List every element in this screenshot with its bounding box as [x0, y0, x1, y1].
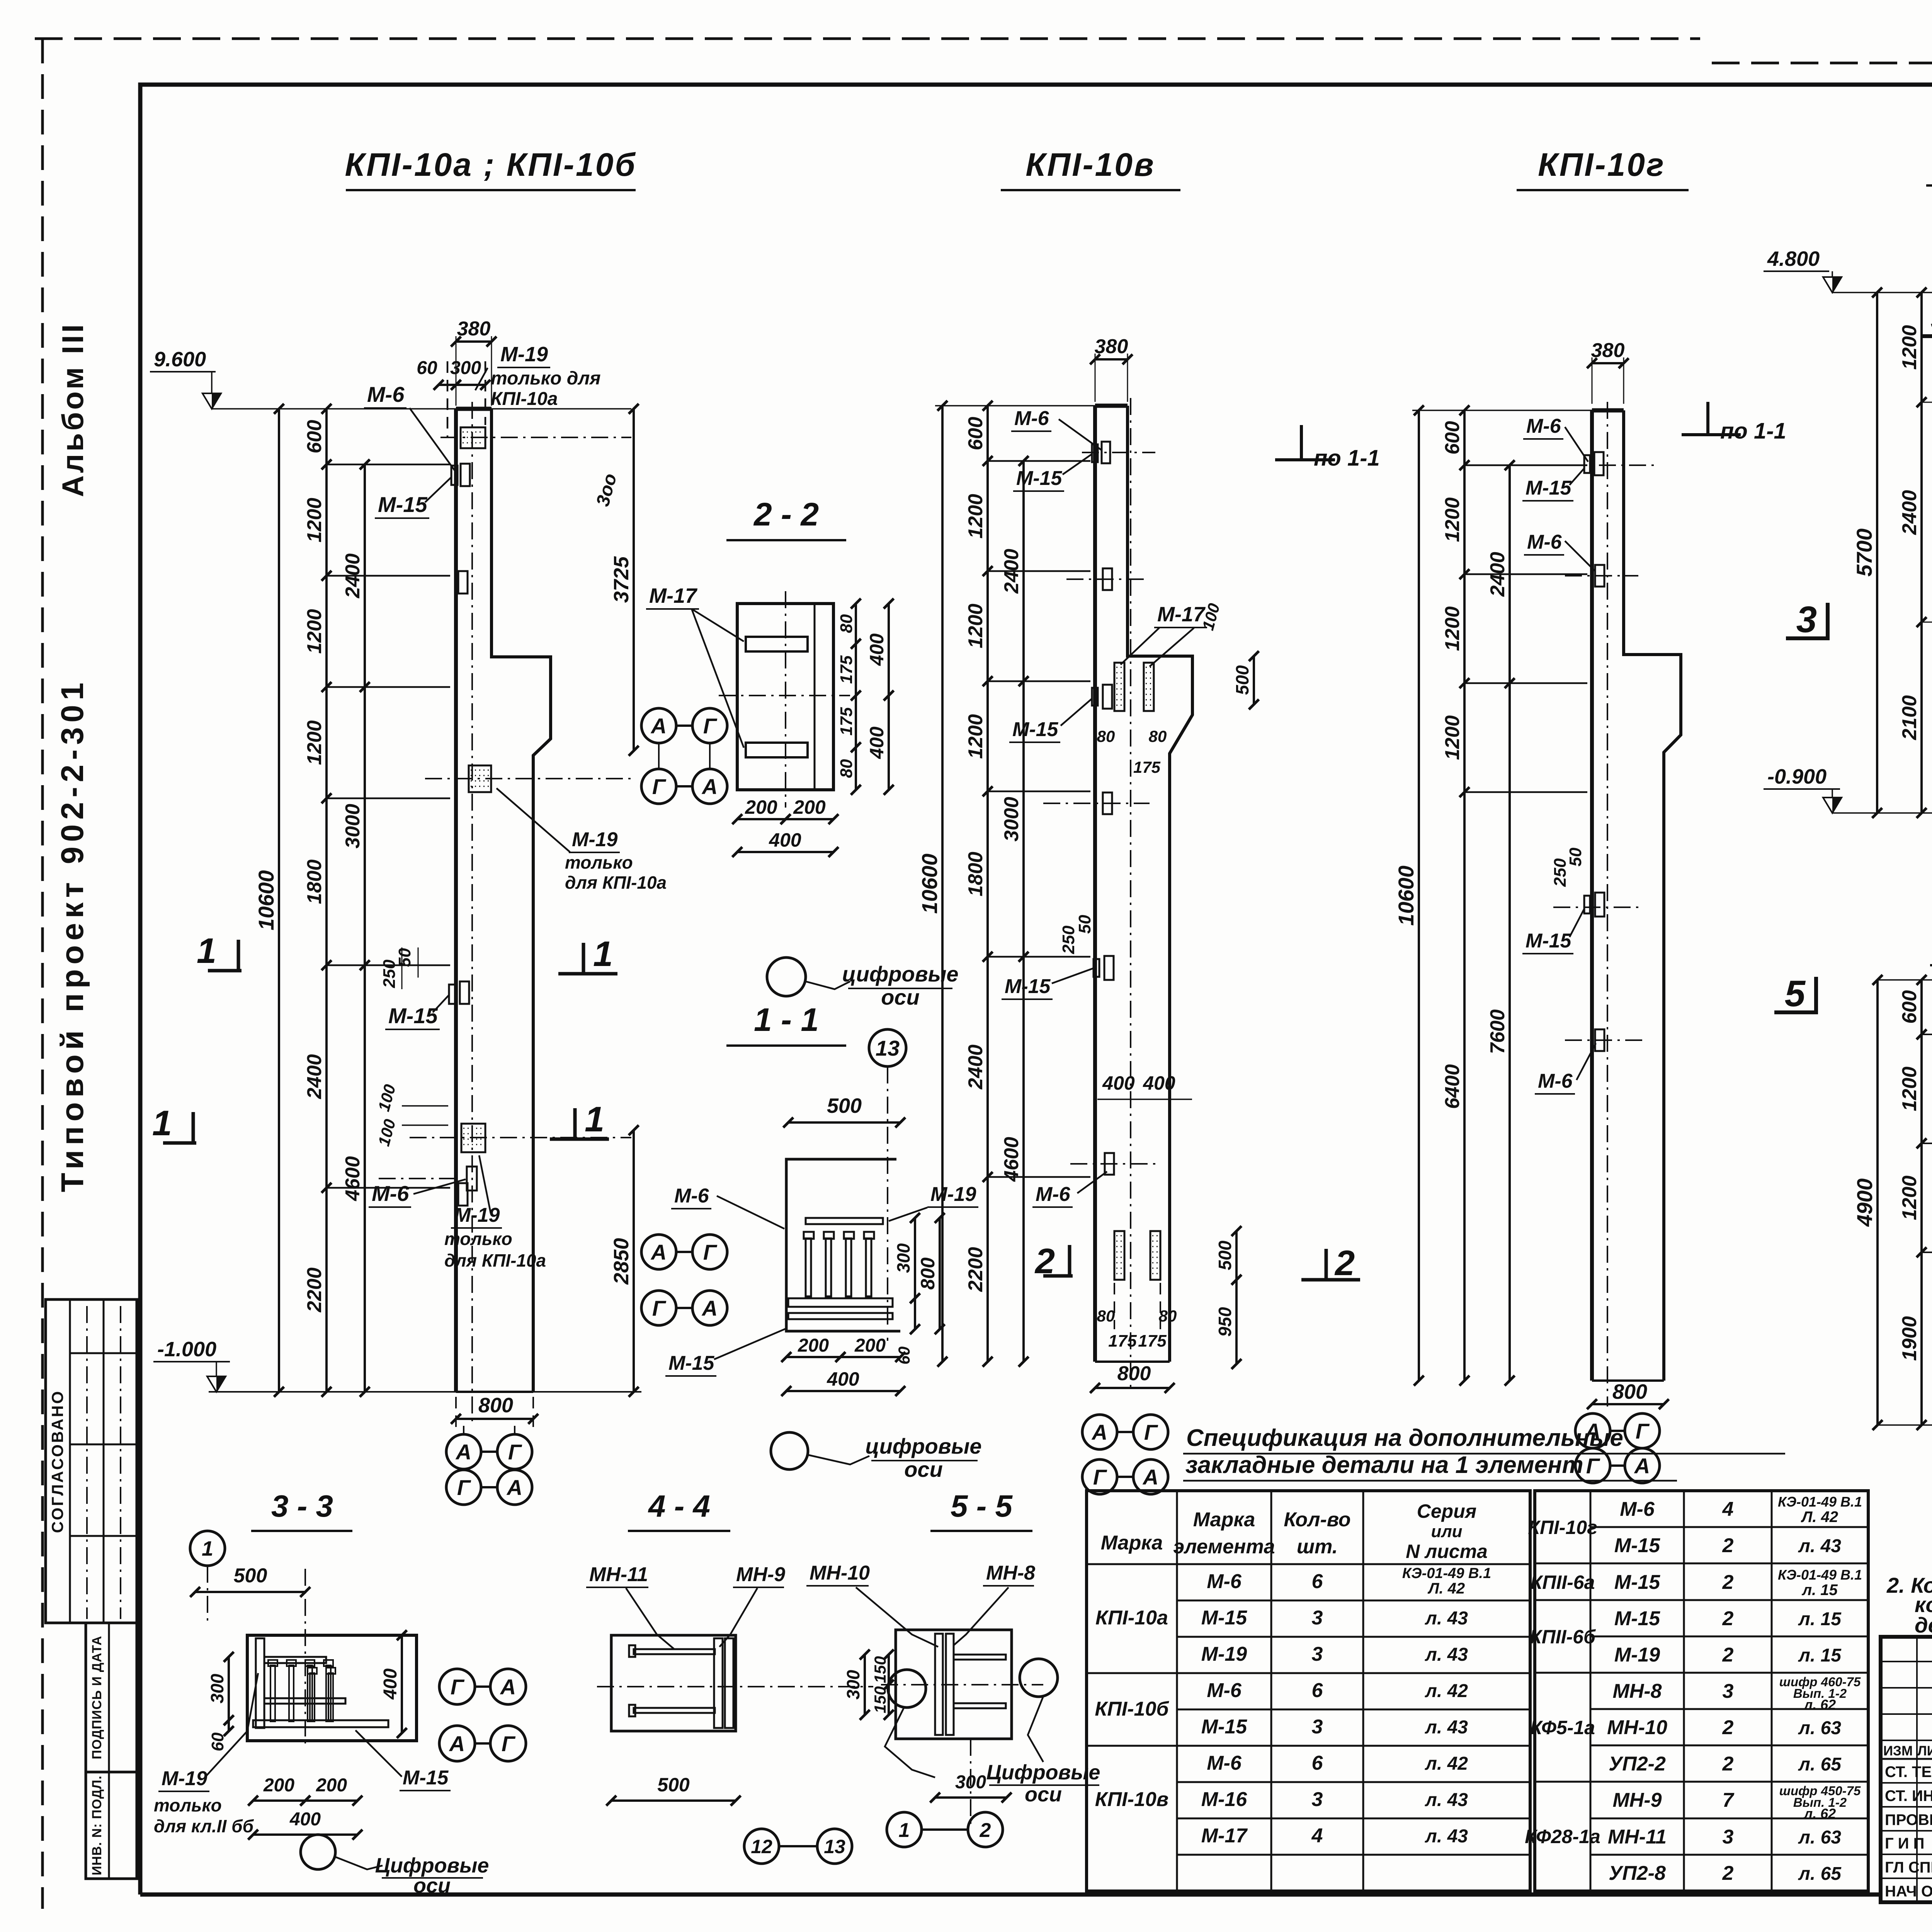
svg-text:1200: 1200 — [964, 714, 987, 759]
title subtable thin row — [1881, 1687, 1932, 1689]
detail 2-2 box — [737, 604, 833, 790]
left spec row line — [1177, 1781, 1530, 1783]
col2 M-17 bars top — [1114, 663, 1124, 711]
svg-text:КПI-10г: КПI-10г — [1528, 1517, 1597, 1538]
col3 axis circles — [1575, 1413, 1610, 1448]
col2 plate M-6 low — [1105, 1153, 1114, 1175]
det44 circles 12 13 — [744, 1829, 779, 1864]
det33 axis circles — [439, 1669, 475, 1704]
svg-text:закладные детали на 1 элем: закладные детали на 1 элемент — [1185, 1452, 1583, 1478]
svg-text:200: 200 — [316, 1775, 347, 1796]
header underline 3 — [1517, 189, 1689, 191]
svg-text:400: 400 — [1102, 1072, 1135, 1094]
col4 base datum — [1832, 812, 1932, 814]
det44 right bar — [714, 1638, 723, 1728]
col1 extension line — [327, 798, 450, 799]
left spec row line — [1177, 1600, 1530, 1602]
svg-text:ПОДПИСЬ И ДАТА: ПОДПИСЬ И ДАТА — [90, 1636, 104, 1759]
section mark 1 right upper — [582, 943, 585, 974]
svg-text:1200: 1200 — [1441, 606, 1464, 651]
col2 plate axes — [1082, 452, 1155, 453]
det22 axis circles — [641, 708, 676, 743]
svg-text:М-6: М-6 — [1538, 1070, 1573, 1092]
det33 dim right 400 — [401, 1635, 403, 1733]
det33 tsifr osi — [301, 1835, 335, 1869]
col3 extension line — [1464, 791, 1587, 793]
svg-text:400: 400 — [827, 1368, 859, 1390]
left spec col line — [1176, 1491, 1178, 1891]
svg-text:л. 63: л. 63 — [1798, 1827, 1841, 1848]
header underline 4 — [1926, 184, 1932, 187]
col2 inner chain — [1022, 461, 1025, 1362]
svg-text:4600: 4600 — [1000, 1137, 1023, 1182]
right spec row line — [1590, 1599, 1868, 1601]
svg-text:КПI-10а ; КПI-10б: КПI-10а ; КПI-10б — [345, 146, 637, 183]
det33 top bar — [264, 1657, 326, 1663]
plate M-19 mid (hatched) — [461, 1124, 485, 1152]
col1 plate axis 1 — [440, 437, 631, 438]
sidebar table soglasovano box — [46, 1299, 137, 1623]
col5 total chain 4900 — [1876, 980, 1879, 1425]
svg-text:3: 3 — [1931, 297, 1932, 338]
sidebar soglasovano row1 — [70, 1352, 137, 1354]
svg-text:80: 80 — [1097, 1307, 1115, 1325]
svg-text:5: 5 — [1785, 973, 1806, 1014]
svg-text:50: 50 — [395, 948, 414, 967]
svg-text:МН-9: МН-9 — [736, 1563, 785, 1586]
title subtable header row — [1881, 1758, 1932, 1760]
svg-text:л. 65: л. 65 — [1798, 1754, 1842, 1775]
svg-text:СТ. ИНЖ.: СТ. ИНЖ. — [1885, 1787, 1932, 1804]
svg-text:2: 2 — [1722, 1644, 1734, 1666]
col1 left dim chain — [325, 409, 328, 1392]
svg-text:М-15: М-15 — [1005, 975, 1051, 998]
svg-text:1800: 1800 — [964, 852, 987, 896]
svg-text:М-6: М-6 — [1207, 1752, 1242, 1774]
svg-text:N листа: N листа — [1406, 1541, 1488, 1562]
svg-text:ИНВ. N: ПОДЛ.: ИНВ. N: ПОДЛ. — [90, 1776, 104, 1876]
svg-text:МН-10: МН-10 — [1607, 1716, 1667, 1739]
det55 bolts — [954, 1655, 1006, 1660]
svg-text:7: 7 — [1723, 1789, 1735, 1811]
det33 bolts2 — [310, 1673, 315, 1721]
col1 extension line — [327, 686, 450, 688]
det55 axis circle — [1020, 1659, 1058, 1697]
svg-text:500: 500 — [234, 1565, 267, 1587]
svg-text:175: 175 — [837, 655, 856, 684]
col1 extension line — [327, 1187, 450, 1189]
svg-text:175: 175 — [1133, 758, 1161, 776]
svg-text:л. 65: л. 65 — [1798, 1864, 1842, 1884]
svg-text:50: 50 — [1566, 847, 1585, 866]
col4 top datum — [1832, 292, 1932, 293]
det55 centerline — [881, 1684, 1043, 1685]
svg-text:МН-11: МН-11 — [1608, 1826, 1667, 1848]
col3 base dim 800 — [1592, 1403, 1664, 1405]
col2 extension line — [988, 791, 1090, 793]
svg-text:1200: 1200 — [1898, 1066, 1921, 1111]
detail 2-2 plate bottom — [746, 743, 808, 757]
svg-text:ГЛ СПЕЦ: ГЛ СПЕЦ — [1885, 1859, 1932, 1876]
col3 total chain 10600 — [1418, 410, 1420, 1381]
det33 mid bar — [264, 1698, 345, 1704]
left spec row line — [1177, 1672, 1530, 1674]
svg-text:1200: 1200 — [303, 609, 326, 654]
det33 base plate — [253, 1720, 388, 1727]
svg-text:4 - 4: 4 - 4 — [648, 1489, 710, 1523]
svg-text:600: 600 — [1441, 421, 1464, 455]
svg-text:МН-8: МН-8 — [986, 1562, 1035, 1584]
sheet outer dashed border top right segment — [1712, 62, 1932, 65]
svg-text:2: 2 — [1722, 1607, 1734, 1630]
col1 width ext lines — [456, 336, 457, 406]
sidebar soglasovano divider v1 — [69, 1299, 71, 1623]
det33 dims below — [253, 1799, 305, 1802]
svg-text:Г: Г — [451, 1675, 465, 1699]
col1 extension line — [327, 575, 450, 577]
det33 bolts — [270, 1665, 275, 1721]
left spec col line — [1270, 1491, 1272, 1891]
right spec col line — [1590, 1491, 1592, 1891]
svg-text:л. 43: л. 43 — [1425, 1645, 1468, 1665]
svg-text:80: 80 — [837, 614, 856, 633]
sidebar soglasovano dashline2 — [120, 1306, 121, 1619]
svg-text:цифровые: цифровые — [865, 1434, 981, 1458]
svg-text:1: 1 — [152, 1104, 172, 1143]
left spec group line1 — [1087, 1672, 1177, 1674]
svg-text:КПI-10б: КПI-10б — [1095, 1698, 1169, 1720]
col5 base datum — [1879, 1424, 1932, 1426]
det44 axis circle — [888, 1670, 926, 1708]
section mark 2 right — [1325, 1249, 1328, 1280]
svg-text:60: 60 — [895, 1347, 913, 1365]
det44 centerline — [597, 1686, 873, 1687]
col5 extension lines — [1922, 1034, 1932, 1035]
svg-text:КПI-10в: КПI-10в — [1026, 146, 1155, 183]
svg-text:2400: 2400 — [303, 1054, 326, 1099]
svg-text:500: 500 — [827, 1094, 862, 1117]
left spec row line — [1177, 1636, 1530, 1638]
det11 axis circles — [641, 1235, 676, 1269]
svg-text:10600: 10600 — [917, 854, 942, 914]
svg-text:2: 2 — [1722, 1534, 1734, 1557]
column KPI-10g outline — [1590, 410, 1594, 1381]
detail 1-1 dim 500 — [788, 1121, 900, 1124]
svg-text:М-15: М-15 — [1016, 467, 1063, 490]
svg-text:М-19: М-19 — [454, 1204, 500, 1226]
svg-text:Марка: Марка — [1193, 1509, 1255, 1531]
title staff row line — [1881, 1806, 1932, 1808]
right spec col line — [1683, 1491, 1685, 1891]
svg-text:Г: Г — [1586, 1454, 1600, 1478]
svg-text:только: только — [154, 1795, 222, 1815]
svg-text:-0.900: -0.900 — [1767, 765, 1827, 788]
right spec group line — [1535, 1781, 1590, 1783]
det55 dims left — [888, 1655, 890, 1715]
left spec row line — [1177, 1818, 1530, 1820]
det44 bolts — [634, 1649, 715, 1654]
svg-text:380: 380 — [457, 318, 491, 340]
col1 axis circles — [446, 1434, 481, 1469]
title subtable thin row — [1881, 1740, 1932, 1741]
svg-text:Спецификация на дополнительн: Спецификация на дополнительные — [1186, 1425, 1623, 1451]
svg-text:1200: 1200 — [303, 498, 326, 543]
col1 right chain 3725/2850 — [633, 409, 635, 751]
detail 2-2 dims below — [737, 818, 786, 820]
svg-text:М-17: М-17 — [649, 584, 698, 607]
svg-text:л. 43: л. 43 — [1425, 1826, 1468, 1847]
svg-text:УП2-8: УП2-8 — [1609, 1862, 1666, 1884]
svg-text:КЭ-01-49 В.1: КЭ-01-49 В.1 — [1778, 1494, 1862, 1510]
svg-text:1200: 1200 — [1441, 715, 1464, 760]
detail 1-1 anchor plate M-19 — [806, 1218, 883, 1224]
col3 centerline — [1607, 402, 1608, 1406]
section mark 3 col3 — [1826, 603, 1830, 638]
svg-text:400: 400 — [1143, 1072, 1175, 1094]
svg-text:175: 175 — [1108, 1332, 1137, 1350]
svg-text:3: 3 — [1723, 1826, 1734, 1848]
svg-text:300: 300 — [207, 1673, 227, 1703]
svg-text:М-6: М-6 — [1527, 531, 1562, 553]
svg-text:только: только — [444, 1229, 512, 1249]
svg-text:л. 42: л. 42 — [1425, 1681, 1468, 1701]
svg-text:12: 12 — [751, 1836, 772, 1857]
left spec col line — [1362, 1491, 1364, 1891]
col3 extension line — [1464, 573, 1587, 575]
svg-text:М-15: М-15 — [1201, 1716, 1248, 1738]
sidebar box podpis i data — [86, 1623, 137, 1772]
title staff row line — [1881, 1782, 1932, 1784]
svg-text:400: 400 — [866, 633, 888, 666]
svg-text:М-15: М-15 — [668, 1352, 715, 1374]
svg-text:Г: Г — [457, 1475, 471, 1500]
col3 left chain — [1463, 410, 1466, 1381]
svg-text:500: 500 — [1215, 1240, 1235, 1270]
svg-text:шт.: шт. — [1297, 1536, 1338, 1558]
svg-text:М-15: М-15 — [1614, 1571, 1661, 1594]
svg-text:цифровые: цифровые — [842, 962, 958, 986]
svg-text:150: 150 — [871, 1686, 889, 1713]
det44 box — [611, 1635, 736, 1731]
svg-text:600: 600 — [303, 420, 326, 454]
svg-text:л. 62: л. 62 — [1803, 1697, 1836, 1713]
svg-text:А: А — [1142, 1465, 1158, 1489]
svg-text:М-15: М-15 — [388, 1003, 438, 1028]
col2 plate M-15 corbel — [1092, 688, 1098, 706]
det44 dim 500 — [611, 1799, 736, 1802]
svg-text:175: 175 — [1138, 1332, 1167, 1350]
det33 circle 1 — [190, 1531, 225, 1566]
svg-text:М-15: М-15 — [1614, 1534, 1661, 1557]
svg-text:КПI-10а: КПI-10а — [1095, 1607, 1168, 1629]
column KPI-10v outline — [1093, 406, 1097, 1362]
svg-text:А: А — [449, 1731, 465, 1756]
plate small low — [467, 1167, 477, 1190]
svg-text:3: 3 — [1312, 1643, 1323, 1665]
svg-text:1200: 1200 — [964, 604, 987, 648]
right spec col line — [1771, 1491, 1773, 1891]
plate M-19 upper-mid (hatched) — [469, 765, 491, 792]
svg-text:60: 60 — [417, 358, 437, 378]
svg-text:л. 43: л. 43 — [1425, 1790, 1468, 1810]
svg-text:для КПI-10а: для КПI-10а — [444, 1250, 546, 1270]
col2 plate 1 — [1103, 568, 1112, 590]
section mark 1 left upper — [237, 940, 240, 971]
left spec table frame — [1087, 1491, 1530, 1891]
svg-text:1900: 1900 — [1898, 1316, 1921, 1361]
header underline 1 — [346, 189, 636, 191]
svg-text:А: А — [650, 1240, 667, 1264]
col1 width dim 380 — [456, 340, 492, 343]
col2 plate M-6 — [1102, 442, 1110, 463]
col2 total chain 10600 — [941, 406, 944, 1362]
svg-text:4: 4 — [1722, 1498, 1734, 1520]
sidebar soglasovano row3 — [70, 1535, 137, 1537]
section mark 5 col3 — [1814, 977, 1818, 1012]
svg-text:ИЗМ: ИЗМ — [1883, 1743, 1913, 1759]
svg-text:1: 1 — [585, 1100, 604, 1139]
svg-text:3: 3 — [1312, 1607, 1323, 1629]
title staff row line — [1881, 1854, 1932, 1855]
right spec row line — [1590, 1818, 1868, 1820]
svg-text:5700: 5700 — [1852, 529, 1876, 577]
right spec row line — [1590, 1526, 1868, 1528]
svg-text:4: 4 — [1311, 1825, 1323, 1847]
svg-text:200: 200 — [263, 1775, 294, 1796]
svg-text:только для: только для — [491, 368, 601, 389]
col1 base dim 800 — [456, 1418, 533, 1420]
svg-text:М-19: М-19 — [1201, 1643, 1247, 1665]
title staff row line — [1881, 1830, 1932, 1832]
det33 dims left — [228, 1657, 230, 1720]
svg-text:150: 150 — [871, 1656, 889, 1683]
title staff row line — [1881, 1878, 1932, 1879]
col3 plates — [1584, 455, 1590, 473]
title subtable thin row — [1881, 1661, 1932, 1662]
svg-text:80: 80 — [1097, 727, 1115, 745]
svg-text:600: 600 — [964, 417, 987, 451]
svg-text:2: 2 — [1034, 1242, 1055, 1281]
title subtable thin row — [1881, 1713, 1932, 1715]
left spec row line — [1177, 1709, 1530, 1711]
svg-text:Г: Г — [502, 1731, 516, 1756]
svg-text:КФ28-1а: КФ28-1а — [1525, 1826, 1600, 1847]
col2 extension line — [988, 570, 1090, 572]
svg-text:Л. 42: Л. 42 — [1427, 1580, 1465, 1597]
svg-text:Л. 42: Л. 42 — [1801, 1509, 1838, 1526]
svg-text:МН-8: МН-8 — [1612, 1680, 1662, 1702]
svg-text:М-19: М-19 — [500, 343, 548, 366]
svg-text:1200: 1200 — [1441, 497, 1464, 542]
svg-text:1 - 1: 1 - 1 — [754, 1002, 819, 1038]
svg-text:400: 400 — [866, 726, 888, 759]
svg-text:80: 80 — [837, 759, 856, 778]
right spec group line — [1535, 1563, 1590, 1565]
svg-text:3: 3 — [1312, 1716, 1323, 1738]
svg-text:2 - 2: 2 - 2 — [753, 496, 819, 532]
svg-text:9.600: 9.600 — [154, 348, 206, 371]
svg-text:800: 800 — [1612, 1380, 1647, 1403]
svg-text:КПI-10в: КПI-10в — [1095, 1788, 1168, 1811]
sidebar soglasovano divider v2 — [103, 1299, 105, 1623]
svg-text:400: 400 — [289, 1809, 321, 1830]
svg-text:10600: 10600 — [1394, 866, 1418, 926]
svg-text:л. 43: л. 43 — [1425, 1717, 1468, 1738]
svg-text:2: 2 — [1722, 1716, 1734, 1739]
left spec row line — [1177, 1854, 1530, 1856]
svg-text:2400: 2400 — [964, 1044, 987, 1090]
col2 extension line — [988, 956, 1090, 958]
svg-text:ПРОВЕР: ПРОВЕР — [1885, 1811, 1932, 1828]
svg-text:М-6: М-6 — [367, 382, 405, 406]
right spec table frame — [1535, 1491, 1868, 1891]
svg-text:А: А — [500, 1675, 516, 1699]
svg-text:60: 60 — [208, 1732, 227, 1751]
col2 centerline — [1130, 398, 1131, 1391]
right spec row line — [1590, 1854, 1868, 1856]
svg-text:13: 13 — [824, 1836, 845, 1857]
col3 plate axes — [1569, 464, 1658, 466]
svg-text:оси: оси — [1025, 1783, 1062, 1806]
title block outer — [1881, 1637, 1932, 1902]
col2 extension line — [988, 460, 1090, 462]
svg-text:380: 380 — [1591, 339, 1625, 362]
det55 circles 1 2 — [887, 1812, 922, 1847]
svg-text:7600: 7600 — [1486, 1009, 1509, 1054]
svg-text:л. 15: л. 15 — [1801, 1582, 1838, 1599]
svg-text:-1.000: -1.000 — [157, 1338, 216, 1361]
svg-text:Г: Г — [1144, 1420, 1158, 1444]
svg-text:М-19: М-19 — [572, 828, 618, 851]
svg-text:Г: Г — [1093, 1465, 1107, 1489]
svg-text:М-16: М-16 — [1201, 1788, 1248, 1811]
svg-text:для кл.II бб: для кл.II бб — [154, 1816, 254, 1836]
right spec group line — [1535, 1599, 1590, 1601]
det55 left bars — [935, 1634, 943, 1735]
col5 left chain — [1920, 980, 1923, 1425]
svg-text:МН-10: МН-10 — [810, 1562, 870, 1584]
svg-text:2: 2 — [1334, 1243, 1355, 1283]
col1 plate axis 2 — [410, 1137, 631, 1138]
svg-text:КЭ-01-49 В.1: КЭ-01-49 В.1 — [1402, 1565, 1491, 1582]
sidebar inv divider — [108, 1772, 110, 1879]
sidebar podpis divider — [108, 1623, 110, 1772]
svg-text:400: 400 — [380, 1668, 401, 1700]
sheet outer dashed border left — [41, 39, 44, 1909]
col2 M-17 bars bottom — [1114, 1231, 1124, 1280]
svg-text:или: или — [1431, 1522, 1462, 1541]
svg-text:М-17: М-17 — [1201, 1825, 1248, 1847]
svg-text:М-15: М-15 — [1012, 718, 1059, 741]
col2 plate M-15 low — [1094, 959, 1099, 977]
svg-text:3 - 3: 3 - 3 — [271, 1489, 333, 1523]
svg-text:2100: 2100 — [1898, 695, 1921, 740]
right spec row line — [1590, 1672, 1868, 1674]
svg-text:950: 950 — [1215, 1307, 1235, 1337]
col1 plate axis 2b — [425, 778, 631, 779]
detail 2-2 inner right line — [814, 604, 816, 790]
svg-text:М-15: М-15 — [378, 492, 427, 517]
svg-text:2: 2 — [1722, 1571, 1734, 1594]
svg-text:Г И П: Г И П — [1885, 1835, 1924, 1852]
svg-text:600: 600 — [1898, 990, 1921, 1024]
col2 width dim 380 — [1095, 358, 1128, 361]
svg-text:Г: Г — [703, 714, 718, 738]
svg-text:М-15: М-15 — [1201, 1607, 1248, 1629]
svg-text:3: 3 — [1723, 1680, 1734, 1702]
svg-text:2: 2 — [980, 1819, 991, 1842]
svg-text:Г: Г — [1636, 1419, 1650, 1443]
